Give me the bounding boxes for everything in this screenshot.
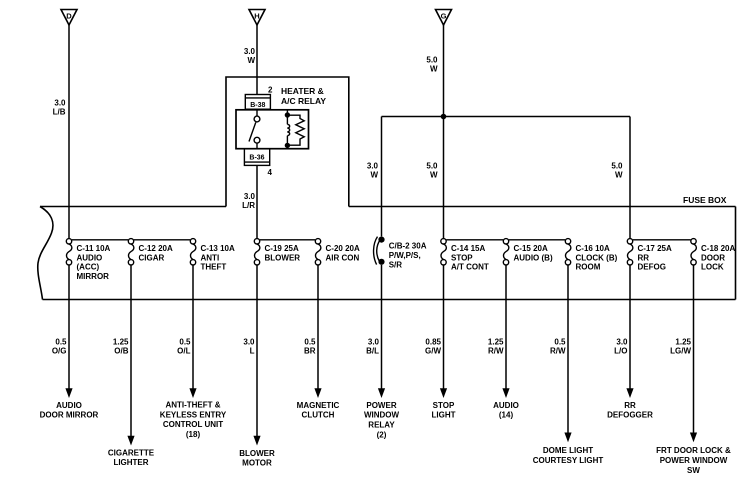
svg-text:A/C RELAY: A/C RELAY — [281, 96, 326, 106]
svg-text:BLOWER: BLOWER — [265, 253, 301, 262]
svg-text:DOOR: DOOR — [701, 253, 725, 262]
relay switch contact — [249, 110, 260, 149]
svg-text:1.25: 1.25 — [488, 337, 504, 346]
fuse box top edge right segment — [349, 206, 736, 208]
svg-text:O/G: O/G — [52, 347, 67, 356]
svg-text:LG/W: LG/W — [670, 347, 691, 356]
svg-text:POWER: POWER — [366, 401, 396, 410]
wire fuse bus segment — [446, 239, 503, 241]
wire to stop light — [425, 265, 456, 420]
svg-text:FRT DOOR LOCK &: FRT DOOR LOCK & — [656, 446, 731, 455]
label 3.0 W (H wire) — [244, 47, 256, 65]
svg-text:0.5: 0.5 — [554, 337, 566, 346]
relay coil — [285, 110, 289, 149]
wire fuse bus segment — [134, 239, 191, 241]
label 3.0 L/B — [53, 98, 66, 116]
svg-text:MIRROR: MIRROR — [77, 272, 110, 281]
svg-text:C-20 20A: C-20 20A — [326, 244, 360, 253]
wire branch horizontal at y=116.5 — [382, 116, 631, 118]
svg-text:5.0: 5.0 — [611, 161, 623, 170]
svg-text:BLOWER: BLOWER — [239, 449, 275, 458]
label 5.0 W (G wire) — [426, 55, 438, 73]
svg-text:W: W — [615, 171, 623, 180]
connector H triangle — [249, 10, 265, 26]
svg-text:BR: BR — [304, 347, 316, 356]
connector B-36 (relay pin 4) — [244, 149, 269, 166]
svg-text:W: W — [370, 171, 378, 180]
svg-text:C/B-2 30A: C/B-2 30A — [389, 241, 427, 250]
svg-text:C-17 25A: C-17 25A — [638, 244, 672, 253]
svg-text:3.0: 3.0 — [616, 337, 628, 346]
node G branch junction — [441, 114, 447, 120]
svg-text:R/W: R/W — [550, 347, 566, 356]
connector B-38 (relay pin 2) — [245, 95, 270, 110]
svg-text:POWER WINDOW: POWER WINDOW — [660, 456, 728, 465]
fuse C-11 10A — [66, 239, 72, 265]
wire to cigarette lighter — [108, 265, 155, 467]
label 3.0 W (C/B-2 branch) — [367, 161, 379, 179]
wire 3.0 L/R from relay pin 4 to fuse C-19 — [256, 165, 258, 238]
svg-text:4: 4 — [268, 168, 273, 177]
svg-text:AUDIO: AUDIO — [56, 401, 82, 410]
fuse box relay pocket outline — [226, 77, 349, 207]
wire to rr defogger — [607, 265, 653, 420]
svg-text:RR: RR — [638, 253, 650, 262]
svg-text:STOP: STOP — [451, 253, 473, 262]
svg-text:0.5: 0.5 — [304, 337, 316, 346]
svg-text:(18): (18) — [186, 430, 201, 439]
svg-text:DEFOGGER: DEFOGGER — [607, 411, 653, 420]
svg-text:CLOCK (B): CLOCK (B) — [576, 253, 618, 262]
svg-text:P/W,P/S,: P/W,P/S, — [389, 251, 421, 260]
fuse box top edge left segment — [40, 206, 226, 208]
wire fuse bus segment — [72, 239, 129, 241]
relay resistor (parallel with coil) — [287, 115, 304, 145]
svg-text:C-12 20A: C-12 20A — [139, 244, 173, 253]
svg-text:COURTESY LIGHT: COURTESY LIGHT — [533, 456, 604, 465]
connector G triangle — [436, 10, 452, 26]
svg-text:0.5: 0.5 — [55, 337, 67, 346]
fuse C-20 20A — [315, 239, 321, 265]
svg-text:MOTOR: MOTOR — [242, 459, 272, 468]
svg-text:STOP: STOP — [433, 401, 455, 410]
svg-text:0.85: 0.85 — [425, 337, 441, 346]
wire 3.0 W branch to circuit breaker C/B-2 — [381, 117, 383, 237]
svg-text:SW: SW — [687, 466, 700, 474]
svg-text:L/B: L/B — [53, 108, 66, 117]
wire to audio — [488, 265, 519, 420]
fuse C-12 20A — [128, 239, 134, 265]
svg-text:3.0: 3.0 — [54, 98, 66, 107]
fuse box bottom edge — [43, 299, 736, 301]
fuse C-13 10A — [190, 239, 196, 265]
svg-text:FUSE BOX: FUSE BOX — [683, 195, 727, 205]
wire H 3.0 W from connector H to relay connector B-38 — [256, 25, 258, 95]
svg-text:B-38: B-38 — [250, 102, 265, 109]
svg-text:2: 2 — [268, 86, 273, 95]
wire to power window relay — [364, 265, 400, 440]
svg-text:C-16 10A: C-16 10A — [576, 244, 610, 253]
svg-text:B/L: B/L — [366, 347, 379, 356]
fuse C-19 25A — [254, 239, 260, 265]
svg-text:5.0: 5.0 — [426, 161, 438, 170]
svg-text:ROOM: ROOM — [576, 263, 601, 272]
svg-text:3.0: 3.0 — [244, 47, 256, 56]
svg-text:W: W — [247, 56, 255, 65]
circuit breaker C/B-2 30A — [374, 237, 385, 265]
wire G 5.0 W from connector G down to fuse C-14 — [443, 25, 445, 239]
svg-text:AUDIO: AUDIO — [77, 253, 103, 262]
svg-text:DOME LIGHT: DOME LIGHT — [543, 446, 593, 455]
wire fuse bus segment — [509, 239, 566, 241]
svg-text:AUDIO: AUDIO — [493, 401, 519, 410]
svg-text:L/R: L/R — [242, 201, 255, 210]
svg-text:C-11 10A: C-11 10A — [77, 244, 111, 253]
fuse box right edge — [735, 207, 737, 300]
svg-text:C-14 15A: C-14 15A — [451, 244, 485, 253]
svg-text:AUDIO (B): AUDIO (B) — [514, 253, 553, 262]
svg-text:G: G — [441, 11, 447, 20]
svg-text:W: W — [430, 65, 438, 74]
svg-text:ANTI: ANTI — [201, 253, 220, 262]
svg-text:G/W: G/W — [425, 347, 441, 356]
svg-text:3.0: 3.0 — [368, 337, 380, 346]
svg-text:3.0: 3.0 — [367, 161, 379, 170]
svg-text:A/T CONT: A/T CONT — [451, 263, 489, 272]
svg-text:1.25: 1.25 — [113, 337, 129, 346]
wire 5.0 W branch to fuse C-17 — [629, 117, 631, 239]
svg-text:RELAY: RELAY — [368, 421, 395, 430]
svg-text:(14): (14) — [499, 411, 514, 420]
svg-text:R/W: R/W — [488, 347, 504, 356]
svg-text:LOCK: LOCK — [701, 263, 724, 272]
svg-text:RR: RR — [624, 401, 636, 410]
fuse C-17 25A — [627, 239, 633, 265]
svg-text:L/O: L/O — [614, 347, 627, 356]
svg-text:B-36: B-36 — [249, 154, 264, 161]
wire to anti-theft control unit — [160, 265, 227, 439]
wire fuse bus segment — [633, 239, 691, 241]
svg-text:LIGHTER: LIGHTER — [113, 458, 148, 467]
fuse C-18 20A — [691, 239, 697, 265]
svg-text:KEYLESS ENTRY: KEYLESS ENTRY — [160, 410, 227, 419]
wire fuse bus segment — [260, 239, 316, 241]
svg-text:3.0: 3.0 — [243, 337, 255, 346]
svg-text:W: W — [430, 171, 438, 180]
label 5.0 W (C-17 branch) — [611, 161, 623, 179]
svg-text:(2): (2) — [377, 431, 387, 440]
fuse C-14 15A — [441, 239, 447, 265]
svg-text:LIGHT: LIGHT — [432, 411, 456, 420]
connector D triangle — [61, 10, 77, 26]
wire to audio door mirror — [40, 265, 99, 420]
svg-text:CLUTCH: CLUTCH — [302, 411, 335, 420]
svg-text:S/R: S/R — [389, 261, 403, 270]
svg-text:DOOR MIRROR: DOOR MIRROR — [40, 411, 99, 420]
svg-text:C-15 20A: C-15 20A — [514, 244, 548, 253]
svg-text:DEFOG: DEFOG — [638, 263, 666, 272]
svg-text:0.5: 0.5 — [179, 337, 191, 346]
wire to magnetic clutch — [297, 265, 340, 420]
svg-text:THEFT: THEFT — [201, 263, 227, 272]
label 3.0 L/R (relay output) — [242, 192, 255, 210]
svg-text:C-13 10A: C-13 10A — [201, 244, 235, 253]
svg-text:(ACC): (ACC) — [77, 263, 100, 272]
svg-text:WINDOW: WINDOW — [364, 411, 400, 420]
wire D 3.0 L/B from connector D to fuse C-11 — [68, 25, 70, 239]
svg-text:ANTI-THEFT &: ANTI-THEFT & — [165, 400, 220, 409]
svg-text:C-19 25A: C-19 25A — [265, 244, 299, 253]
fuse C-16 10A — [565, 239, 571, 265]
svg-text:C-18 20A: C-18 20A — [701, 244, 735, 253]
svg-text:1.25: 1.25 — [675, 337, 691, 346]
svg-text:L: L — [250, 347, 255, 356]
svg-text:O/L: O/L — [177, 347, 190, 356]
svg-text:3.0: 3.0 — [244, 192, 256, 201]
svg-text:HEATER &: HEATER & — [281, 86, 324, 96]
svg-text:AIR CON: AIR CON — [326, 253, 360, 262]
fuse box torn left edge — [38, 207, 53, 300]
svg-text:O/B: O/B — [114, 347, 128, 356]
wire to frt door lock switch — [656, 265, 731, 475]
svg-text:D: D — [66, 11, 72, 20]
relay U1 HEATER & A/C RELAY box — [236, 110, 309, 149]
svg-text:CONTROL UNIT: CONTROL UNIT — [163, 420, 223, 429]
svg-text:H: H — [254, 11, 259, 20]
svg-text:5.0: 5.0 — [426, 55, 438, 64]
svg-text:CIGARETTE: CIGARETTE — [108, 448, 155, 457]
wire to blower motor — [239, 265, 275, 468]
svg-text:CIGAR: CIGAR — [139, 253, 165, 262]
label 5.0 W (C-14 branch) — [426, 161, 438, 179]
fuse C-15 20A — [503, 239, 509, 265]
svg-text:MAGNETIC: MAGNETIC — [297, 401, 340, 410]
wire to dome light — [533, 265, 604, 465]
